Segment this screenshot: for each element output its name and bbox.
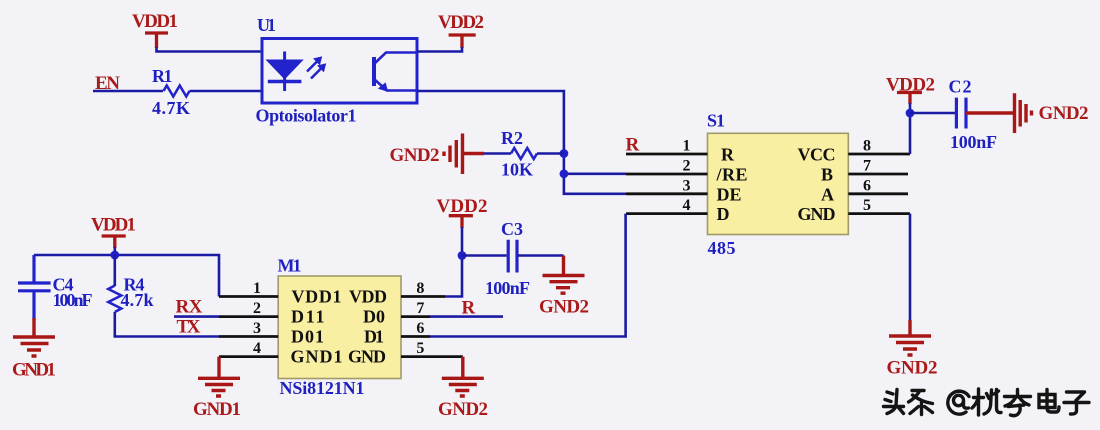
svg-text:VDD2: VDD2 bbox=[437, 196, 488, 217]
wire VDD2 down to M1 pin8 bbox=[445, 227, 462, 297]
pin 3 S1 bbox=[626, 192, 708, 195]
svg-text:8: 8 bbox=[416, 280, 424, 297]
chip S1 body bbox=[708, 133, 849, 234]
svg-text:GND: GND bbox=[798, 204, 836, 224]
svg-text:VCC: VCC bbox=[798, 145, 836, 165]
pin 1 S1 bbox=[626, 153, 708, 156]
power port VDD1 (left) bbox=[102, 236, 126, 248]
svg-text:VDD1: VDD1 bbox=[292, 287, 342, 307]
svg-text:100nF: 100nF bbox=[950, 132, 997, 152]
wire VDD1 rail bbox=[34, 247, 219, 297]
pin 8 M1 bbox=[401, 295, 445, 298]
svg-text:7: 7 bbox=[416, 300, 424, 317]
pin 5 M1 bbox=[401, 355, 463, 358]
svg-text:4.7K: 4.7K bbox=[152, 98, 190, 118]
capacitor C2 bbox=[956, 98, 966, 129]
op-amp U1 optoisolator box bbox=[262, 39, 417, 104]
junction node pin2 bbox=[560, 169, 569, 178]
wire S1 pin5 down to GND2 bbox=[909, 214, 912, 322]
svg-text:D1: D1 bbox=[364, 327, 384, 347]
svg-text:A: A bbox=[821, 184, 834, 204]
svg-text:6: 6 bbox=[416, 320, 424, 337]
svg-text:VDD2: VDD2 bbox=[438, 12, 484, 33]
svg-text:GND2: GND2 bbox=[887, 358, 938, 379]
junction VDD2/C2 bbox=[906, 109, 915, 118]
resistor R1 bbox=[164, 86, 190, 97]
pin 7 S1 bbox=[848, 173, 908, 176]
ground GND2 (M1 pin5) bbox=[442, 357, 484, 396]
pin 5 S1 bbox=[848, 212, 910, 215]
wire R4 down to TX net bbox=[115, 312, 219, 337]
svg-text:8: 8 bbox=[863, 138, 871, 155]
svg-text:S1: S1 bbox=[707, 111, 725, 131]
wire VDD1 to optoisolator anode bbox=[157, 47, 263, 52]
pin 8 S1 bbox=[848, 153, 910, 156]
ground GND2 (C3) bbox=[543, 256, 585, 294]
svg-text:GND1: GND1 bbox=[291, 347, 343, 367]
LED light arrows bbox=[307, 57, 326, 79]
svg-text:VDD2: VDD2 bbox=[886, 75, 935, 96]
svg-text:4.7k: 4.7k bbox=[121, 290, 154, 310]
svg-text:GND2: GND2 bbox=[438, 399, 488, 420]
wire VDD1 to R4 bbox=[114, 255, 117, 286]
svg-text:GND2: GND2 bbox=[390, 145, 440, 166]
svg-text:1: 1 bbox=[683, 138, 691, 155]
svg-text:DE: DE bbox=[717, 184, 742, 204]
ground GND2 (S1) bbox=[889, 320, 931, 355]
wire S1 pin4 down to M1 pin6 bbox=[430, 214, 626, 337]
svg-text:VDD: VDD bbox=[349, 287, 387, 307]
pin 4 M1 bbox=[219, 355, 278, 358]
svg-text:485: 485 bbox=[708, 238, 736, 258]
svg-text:D: D bbox=[717, 204, 730, 224]
svg-text:GND2: GND2 bbox=[539, 297, 589, 318]
junction node R2 bbox=[560, 149, 569, 158]
svg-text:R2: R2 bbox=[501, 128, 523, 148]
svg-text:3: 3 bbox=[683, 177, 691, 194]
pin 2 M1 bbox=[219, 315, 278, 318]
svg-text:D0: D0 bbox=[363, 307, 385, 327]
ground GND1 (M1 pin4) bbox=[198, 357, 240, 396]
capacitor C3 bbox=[508, 240, 517, 273]
svg-text:M1: M1 bbox=[278, 256, 302, 276]
junction VDD1 rail bbox=[110, 251, 119, 260]
wire R1 to optoisolator cathode bbox=[190, 90, 263, 93]
svg-text:4: 4 bbox=[683, 197, 691, 214]
svg-text:B: B bbox=[821, 165, 833, 185]
wire VDD2 down to pin8 bbox=[909, 103, 912, 154]
svg-text:D11: D11 bbox=[291, 307, 325, 327]
svg-text:D01: D01 bbox=[291, 327, 324, 347]
LED inside optoisolator bbox=[268, 52, 302, 92]
wire VDD2 to optoisolator collector bbox=[417, 47, 462, 52]
ground GND2 (C2, rotated) bbox=[966, 93, 1032, 133]
svg-text:GND2: GND2 bbox=[1039, 103, 1089, 124]
svg-text:RX: RX bbox=[176, 297, 203, 318]
svg-text:2: 2 bbox=[683, 158, 691, 175]
svg-text:R1: R1 bbox=[152, 66, 173, 86]
wire junction to C2 bbox=[910, 112, 956, 115]
junction C3 bbox=[458, 251, 467, 260]
pin 2 S1 bbox=[626, 173, 708, 176]
pin 1 M1 bbox=[219, 295, 278, 298]
svg-text:VDD1: VDD1 bbox=[132, 11, 178, 32]
wire EN to R1 bbox=[93, 90, 163, 93]
svg-text:7: 7 bbox=[863, 158, 871, 175]
svg-text:5: 5 bbox=[416, 340, 424, 357]
pin 6 S1 bbox=[848, 192, 908, 195]
wire R2 to node bbox=[537, 152, 564, 155]
svg-text:GND: GND bbox=[348, 347, 386, 367]
power port VDD1 (top) bbox=[145, 33, 168, 48]
pin 3 M1 bbox=[219, 335, 278, 338]
svg-text:10K: 10K bbox=[501, 160, 533, 180]
ground GND1 (C4) bbox=[13, 318, 55, 356]
svg-text:R: R bbox=[721, 145, 735, 165]
wire GND2 to R2 bbox=[484, 152, 511, 155]
svg-text:GND1: GND1 bbox=[12, 360, 56, 381]
pin 7 M1 bbox=[401, 315, 430, 318]
pin 4 S1 bbox=[626, 212, 708, 215]
ground GND2 (R2, rotated) bbox=[444, 134, 484, 175]
wire R net M1 pin7 bbox=[430, 315, 503, 318]
svg-text:NSi8121N1: NSi8121N1 bbox=[280, 378, 365, 398]
svg-text:TX: TX bbox=[177, 317, 201, 338]
svg-text:C2: C2 bbox=[949, 77, 972, 97]
resistor R2 bbox=[511, 148, 537, 159]
svg-text:4: 4 bbox=[253, 340, 261, 357]
phototransistor inside optoisolator bbox=[374, 53, 417, 92]
svg-text:100nF: 100nF bbox=[485, 278, 530, 298]
wire RX to pin2 bbox=[174, 315, 219, 318]
svg-text:100nF: 100nF bbox=[53, 290, 93, 310]
svg-text:/RE: /RE bbox=[716, 165, 748, 185]
resistor R4 bbox=[108, 286, 121, 313]
power port VDD2 (above C2) bbox=[897, 93, 922, 105]
pin 6 M1 bbox=[401, 335, 430, 338]
power port VDD2 (above C3) bbox=[449, 216, 473, 228]
svg-text:C3: C3 bbox=[501, 219, 523, 239]
watermark 头条@桃李电子 bbox=[884, 389, 1090, 416]
wire junction to C3 bbox=[462, 254, 507, 257]
svg-text:GND1: GND1 bbox=[193, 399, 241, 420]
svg-text:6: 6 bbox=[863, 177, 871, 194]
svg-text:5: 5 bbox=[863, 197, 871, 214]
capacitor C4 bbox=[18, 255, 51, 320]
svg-text:VDD1: VDD1 bbox=[91, 215, 136, 236]
wire node to S1 pin2 bbox=[564, 173, 626, 176]
svg-text:R: R bbox=[626, 135, 640, 156]
chip M1 body bbox=[278, 276, 401, 379]
svg-text:U1: U1 bbox=[257, 15, 276, 35]
power port VDD2 (top) bbox=[449, 35, 476, 48]
svg-text:2: 2 bbox=[253, 300, 261, 317]
wire emitter to node, down to S1 pins 2,3 bbox=[417, 91, 626, 194]
svg-text:3: 3 bbox=[253, 320, 261, 337]
wire C3 to GND2 bbox=[517, 254, 564, 257]
svg-text:1: 1 bbox=[253, 280, 261, 297]
svg-text:Optoisolator1: Optoisolator1 bbox=[256, 106, 357, 126]
